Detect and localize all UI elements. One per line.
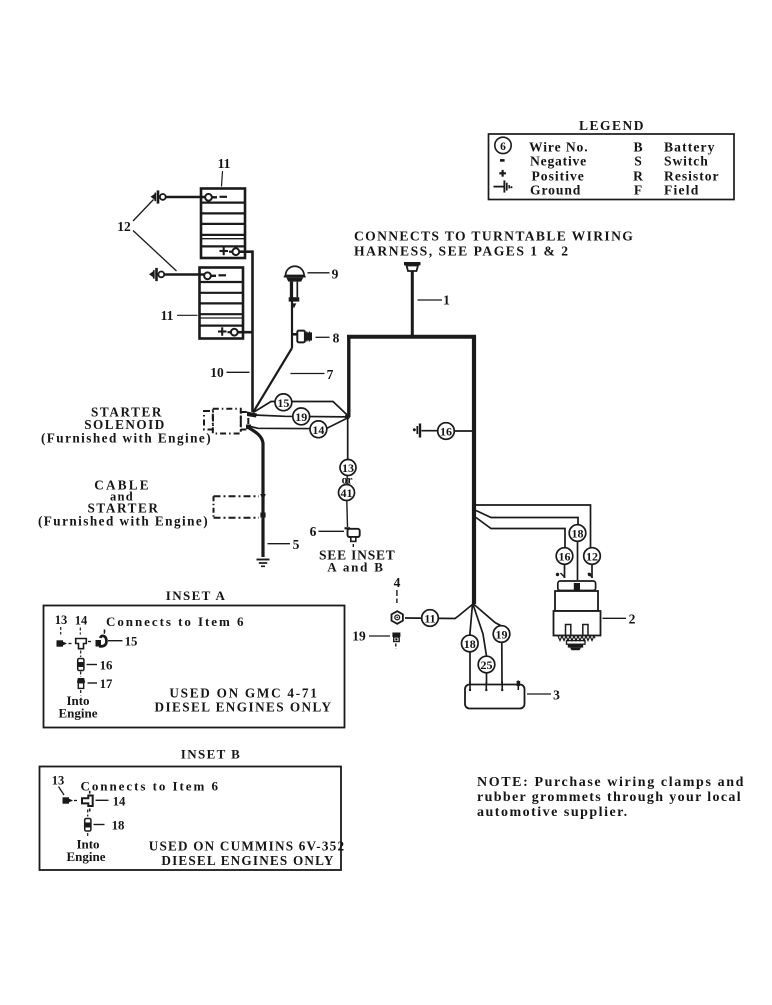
- solenoid terminal junction blobs: [246, 412, 257, 430]
- svg-text:Engine: Engine: [58, 706, 97, 721]
- inset A fuse 16: [78, 651, 84, 671]
- ground (item 5 cable end): [257, 560, 270, 567]
- label 19 (item): [352, 629, 390, 644]
- label 4: [394, 575, 401, 603]
- svg-text:13: 13: [55, 613, 68, 627]
- legend ground symbol: [494, 180, 513, 192]
- svg-text:6: 6: [500, 141, 506, 153]
- wire no. circle 19 (lower): [493, 626, 510, 643]
- inset B label Connects to Item 6: [81, 779, 220, 794]
- svg-text:3: 3: [553, 688, 560, 703]
- legend text Ground: [530, 183, 581, 198]
- svg-text:Switch: Switch: [664, 154, 709, 169]
- svg-text:INSET A: INSET A: [166, 588, 227, 603]
- legend text Resistor: [664, 169, 720, 184]
- battery upper negative terminal: [205, 194, 227, 201]
- wire no. circle 18 (lower): [462, 635, 479, 652]
- note CONNECTS TO TURNTABLE WIRING HARNESS: [354, 229, 634, 259]
- stud item 4 (hex nut): [392, 611, 403, 624]
- generator item 2: [554, 573, 601, 650]
- wire no. circle 19: [293, 408, 310, 425]
- inset B box: [40, 767, 342, 871]
- wire harness top run: [347, 335, 476, 339]
- wire harness right run: [472, 335, 476, 604]
- connector item 8: [291, 331, 312, 343]
- svg-text:(Furnished with Engine): (Furnished with Engine): [41, 431, 212, 446]
- svg-text:Negative: Negative: [530, 154, 587, 169]
- wire 12 branch (top) to generator: [476, 505, 592, 578]
- legend title: [579, 118, 645, 133]
- svg-text:INSET B: INSET B: [181, 747, 242, 762]
- wire 16 branch (bottom) to generator: [476, 518, 565, 579]
- label or: [342, 475, 353, 487]
- svg-text:Connects to Item 6: Connects to Item 6: [81, 779, 220, 794]
- svg-text:11: 11: [161, 308, 174, 323]
- note purchase wiring clamps: [477, 775, 745, 820]
- wire junction to circle 18 and resistor: [470, 604, 473, 684]
- wire ground to lower battery negative: [164, 273, 204, 276]
- label 6: [310, 524, 344, 539]
- wire 14 (lower fan wire): [251, 418, 349, 429]
- wire ground to upper battery negative: [166, 196, 206, 199]
- legend text Switch: [664, 154, 709, 169]
- svg-text:B: B: [633, 140, 642, 155]
- inset A label 16: [87, 658, 114, 672]
- svg-text:13: 13: [342, 461, 354, 475]
- svg-text:(Furnished with Engine): (Furnished with Engine): [38, 514, 209, 529]
- svg-text:9: 9: [332, 267, 339, 282]
- wire no. circle 16 (generator): [556, 548, 573, 565]
- wire harness left run: [345, 335, 350, 419]
- label 12 with pointer lines to both grounds: [117, 200, 176, 272]
- wire junction to circle 25 and resistor: [473, 605, 487, 684]
- wire no. circle 16: [438, 423, 455, 440]
- label 7: [291, 367, 334, 382]
- label 10: [210, 365, 249, 380]
- svg-text:Battery: Battery: [664, 140, 715, 155]
- svg-text:41: 41: [341, 486, 353, 500]
- wire from item 9 down past item 8 (item 7): [291, 282, 293, 348]
- inset A label 15: [108, 635, 137, 649]
- ground (lower battery, item 12): [149, 268, 164, 281]
- label 8: [316, 331, 340, 346]
- inset B caption USED ON CUMMINS 6V-352: [149, 839, 346, 869]
- label 1: [418, 293, 451, 308]
- wire junction to circle 19 and resistor: [474, 604, 503, 684]
- label INSET A: [166, 588, 227, 603]
- svg-text:USED ON GMC 4-71: USED ON GMC 4-71: [169, 686, 318, 701]
- svg-text:Wire No.: Wire No.: [529, 140, 589, 155]
- legend letter B: [633, 140, 642, 155]
- svg-text:12: 12: [117, 219, 131, 234]
- svg-text:automotive supplier.: automotive supplier.: [477, 805, 629, 820]
- svg-text:14: 14: [75, 614, 88, 628]
- legend negative symbol: [500, 159, 505, 162]
- wire no. circle 11: [422, 610, 439, 627]
- svg-text:Connects to Item 6: Connects to Item 6: [106, 614, 245, 629]
- connector item 6: [345, 528, 360, 548]
- svg-text:7: 7: [327, 367, 334, 382]
- svg-text:18: 18: [572, 527, 584, 541]
- svg-text:8: 8: [333, 331, 340, 346]
- label 5: [268, 537, 300, 552]
- inset A plug 17: [77, 672, 85, 689]
- svg-text:11: 11: [218, 156, 231, 171]
- wire no. circle 14: [310, 421, 327, 438]
- battery lower positive terminal: [218, 327, 238, 335]
- svg-text:1: 1: [443, 293, 450, 308]
- inset A connector 13: [57, 640, 74, 646]
- wire 7 diagonal from item 8 to solenoid junction: [253, 348, 292, 413]
- cable and starter box (dashed): [214, 496, 260, 517]
- inset B plug 14: [82, 796, 93, 812]
- wire from fan junction to item 6: [346, 417, 349, 527]
- inset B connector 13: [63, 797, 79, 803]
- svg-text:10: 10: [210, 365, 224, 380]
- resistor item 3 (terminal block): [465, 681, 525, 709]
- svg-text:18: 18: [464, 637, 476, 651]
- wire no. circle 41: [339, 485, 355, 501]
- svg-text:25: 25: [481, 658, 493, 672]
- inset A label Connects to Item 6: [104, 614, 246, 637]
- wire item 1 to harness loop: [411, 271, 414, 336]
- svg-text:17: 17: [100, 677, 113, 691]
- svg-text:13: 13: [52, 774, 65, 788]
- label 11 (lower battery): [161, 308, 198, 323]
- wire 19 (middle fan wire): [254, 415, 348, 417]
- inset A Into Engine: [58, 690, 97, 721]
- inset A hook 15: [96, 630, 107, 647]
- svg-text:Positive: Positive: [532, 169, 585, 184]
- wire no. circle 13: [340, 460, 356, 476]
- wire no. circle 12 (generator): [584, 548, 601, 565]
- inset A box: [44, 606, 345, 728]
- svg-text:S: S: [634, 154, 642, 169]
- svg-text:DIESEL ENGINES ONLY: DIESEL ENGINES ONLY: [161, 853, 334, 868]
- legend text Negative: [530, 154, 587, 169]
- svg-text:F: F: [634, 183, 642, 198]
- legend wire-no symbol (circled 6): [495, 137, 511, 153]
- svg-text:11: 11: [424, 612, 435, 626]
- battery B upper (item 11): [201, 189, 245, 259]
- wire starter cable from solenoid down: [249, 428, 263, 557]
- svg-text:Resistor: Resistor: [664, 169, 720, 184]
- svg-text:6: 6: [310, 524, 317, 539]
- label 2: [603, 612, 636, 627]
- inset B label 14: [96, 794, 127, 808]
- svg-text:HARNESS, SEE PAGES 1 & 2: HARNESS, SEE PAGES 1 & 2: [354, 244, 570, 259]
- svg-text:19: 19: [295, 410, 307, 424]
- legend box: [489, 134, 735, 200]
- svg-text:5: 5: [293, 537, 300, 552]
- svg-text:Engine: Engine: [66, 849, 105, 864]
- legend text Positive: [532, 169, 585, 184]
- svg-text:Ground: Ground: [530, 183, 581, 198]
- starter solenoid body (dashed): [204, 409, 248, 434]
- label 11 (upper battery): [218, 156, 231, 187]
- wire no. circle 18 (generator): [569, 525, 586, 542]
- cable arrowheads: [260, 494, 266, 518]
- inset A labels 13 14: [55, 613, 88, 635]
- svg-text:NOTE: Purchase wiring clamps: NOTE: Purchase wiring clamps and: [477, 775, 745, 790]
- inset A plug 14: [76, 639, 93, 649]
- svg-text:2: 2: [629, 612, 636, 627]
- wire junction to circle 11 and item 4: [405, 604, 473, 619]
- svg-text:12: 12: [586, 550, 598, 564]
- label INSET B: [181, 747, 242, 762]
- svg-text:LEGEND: LEGEND: [579, 118, 645, 133]
- label SEE INSET A and B: [319, 548, 396, 575]
- svg-text:15: 15: [277, 396, 289, 410]
- battery upper positive terminal: [220, 247, 240, 255]
- inset A label 17: [88, 677, 114, 691]
- svg-text:Field: Field: [664, 183, 699, 198]
- wire 15 (upper fan wire solenoid to harness): [254, 402, 348, 416]
- switch item 9 (dome button): [284, 266, 306, 308]
- connector item 1 (to turntable harness): [404, 264, 421, 271]
- legend positive symbol: [499, 170, 506, 177]
- svg-text:16: 16: [440, 425, 452, 439]
- ground (upper battery, item 12): [151, 190, 166, 203]
- svg-text:16: 16: [100, 658, 113, 672]
- svg-text:16: 16: [559, 550, 571, 564]
- inset B label 13: [52, 774, 65, 796]
- battery lower negative terminal: [204, 272, 226, 279]
- label STARTER SOLENOID: [41, 405, 212, 446]
- connector item 19 (below item 4): [392, 633, 400, 650]
- wire 18 branch (middle) to generator: [476, 511, 578, 581]
- svg-text:14: 14: [113, 794, 126, 808]
- inset B label 18: [94, 818, 125, 832]
- wire battery positives to solenoid (item 10): [238, 252, 253, 412]
- wire ground to harness: [422, 430, 473, 432]
- svg-text:15: 15: [125, 635, 138, 649]
- legend text Wire No.: [529, 140, 589, 155]
- label CABLE and STARTER: [38, 478, 209, 529]
- legend letter F: [634, 183, 642, 198]
- ground (item 16): [413, 424, 420, 438]
- wire no. circle 25: [478, 656, 495, 673]
- svg-text:14: 14: [312, 423, 324, 437]
- svg-text:19: 19: [352, 629, 366, 644]
- inset B fuse 18: [85, 810, 91, 832]
- wire no. circle 15: [275, 394, 292, 411]
- battery B lower (item 11): [200, 268, 244, 339]
- svg-text:A and B: A and B: [327, 560, 384, 575]
- svg-text:DIESEL ENGINES ONLY: DIESEL ENGINES ONLY: [154, 700, 332, 715]
- inset B Into Engine: [66, 833, 105, 864]
- legend text Battery: [664, 140, 715, 155]
- svg-text:USED ON CUMMINS 6V-352: USED ON CUMMINS 6V-352: [149, 839, 346, 854]
- svg-text:CONNECTS TO TURNTABLE WIRING: CONNECTS TO TURNTABLE WIRING: [354, 229, 634, 244]
- svg-text:19: 19: [496, 628, 508, 642]
- svg-text:rubber grommets through your l: rubber grommets through your local: [477, 790, 742, 805]
- label 3: [527, 688, 560, 703]
- svg-text:4: 4: [394, 575, 401, 590]
- svg-text:or: or: [342, 475, 353, 487]
- inset A caption USED ON GMC 4-71: [154, 686, 332, 715]
- label 9: [308, 267, 339, 282]
- legend letter R: [633, 169, 643, 184]
- svg-text:18: 18: [112, 818, 125, 832]
- legend text Field: [664, 183, 699, 198]
- svg-text:R: R: [633, 169, 643, 184]
- legend letter S: [634, 154, 642, 169]
